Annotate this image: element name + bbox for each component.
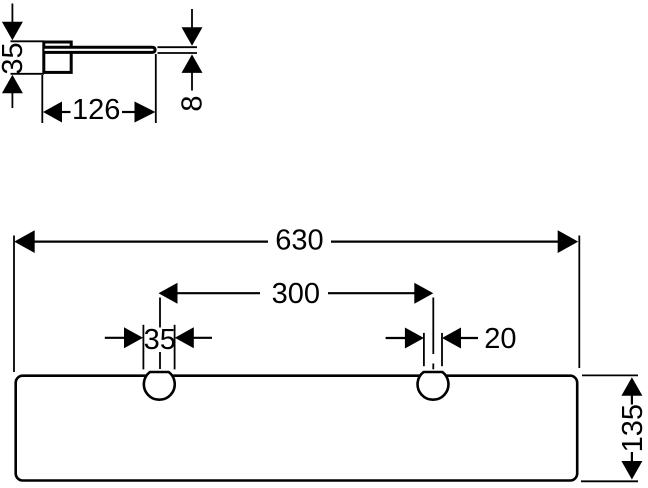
svg-text:126: 126: [72, 94, 120, 126]
svg-text:20: 20: [484, 323, 516, 355]
dim 630 line left segment: [34, 241, 269, 243]
dim 20 tail left: [386, 337, 406, 339]
dim 8 extension line top: [158, 46, 198, 48]
dim 35 (front) extension line right: [174, 325, 176, 370]
dim 126 extension line right: [155, 54, 157, 123]
dim 135 arrow down: [621, 461, 642, 480]
dim 8 tail line bottom: [191, 72, 193, 90]
dim 20 extension line left: [423, 333, 425, 366]
dim 35 extension line bottom: [11, 73, 45, 75]
hole centerline right upper: [432, 298, 434, 355]
dim 135 stub top: [631, 395, 633, 405]
dim 8 tail line top: [191, 9, 193, 28]
svg-text:135: 135: [617, 404, 648, 452]
dim 126 arrow left: [43, 102, 62, 123]
dim 630 arrow left: [14, 230, 35, 253]
svg-text:8: 8: [177, 95, 209, 111]
dim 300 line left segment: [177, 292, 261, 294]
dim 135 extension line top: [582, 374, 638, 376]
dim 35 (front) extension line left: [142, 325, 144, 370]
dim 135 extension line bottom: [581, 480, 638, 482]
dim 20 arrow pointing right: [405, 328, 424, 349]
dim 630 line right segment: [331, 241, 559, 243]
dim 35 (front) tail left: [105, 337, 124, 339]
dim 630 extension line right: [578, 236, 580, 369]
dim 126 line left segment: [61, 111, 71, 113]
dim 126 arrow right: [135, 102, 156, 123]
svg-text:630: 630: [275, 224, 323, 256]
glass shelf bar (profile view): [45, 47, 156, 52]
dim 135 arrow up: [621, 377, 642, 396]
hole centerline left upper: [159, 298, 161, 328]
dim 300 line right segment: [328, 292, 415, 294]
svg-text:300: 300: [272, 278, 320, 310]
mounting hole right: [418, 372, 449, 400]
dim 35 arrow down: [2, 22, 23, 41]
dim 20 extension line right: [441, 333, 443, 366]
dim 300 arrow right: [414, 283, 433, 304]
hole centerline right dash: [432, 364, 434, 370]
dim 300 arrow left: [159, 283, 178, 304]
dim 20 tail right: [460, 337, 478, 339]
mounting hole left: [144, 372, 175, 400]
shelf plate (front view): [16, 376, 578, 481]
bracket (profile view wall holder): [44, 42, 71, 72]
dim 20 arrow pointing left: [442, 328, 461, 349]
hole centerline left lower: [159, 352, 161, 369]
dim 126 extension line left: [41, 75, 43, 123]
dim 35 tail line bottom: [11, 93, 13, 108]
dim 630 arrow right: [558, 230, 579, 253]
dim 8 extension line bottom: [158, 52, 198, 54]
dim 126 line right segment: [122, 111, 136, 113]
dim 35 arrow up: [2, 75, 23, 94]
dim 8 arrow down: [182, 27, 203, 46]
svg-text:35: 35: [0, 42, 29, 74]
dim 135 stub bottom: [631, 452, 633, 464]
dim 35 tail line top: [11, 4, 13, 23]
dim 630 extension line left: [13, 236, 15, 373]
dim 35 extension line top: [11, 40, 45, 42]
dim 35 (front) tail right: [193, 337, 212, 339]
dim 35 (front) arrow pointing right: [124, 327, 143, 348]
svg-text:35: 35: [144, 324, 176, 356]
dim 8 arrow up: [182, 54, 203, 73]
dim 35 (front) arrow pointing left: [175, 327, 194, 348]
